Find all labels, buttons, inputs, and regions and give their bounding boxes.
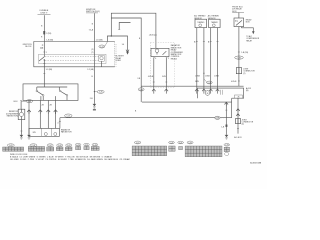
fusible link label	[38, 10, 51, 14]
dashed enclosure radiator fan relay	[150, 43, 174, 88]
connector C-12 table	[91, 143, 99, 150]
svg-text:AC305817AB: AC305817AB	[250, 161, 262, 164]
resistor ground wire	[20, 120, 22, 135]
svg-text:1-S (6B): 1-S (6B)	[46, 39, 53, 41]
wire label 1-B(1B)	[238, 52, 248, 54]
relay pin 1	[165, 57, 167, 58]
ground symbol	[93, 104, 97, 111]
wire JB relay to JB bottom	[101, 61, 103, 67]
svg-text:C-24: C-24	[170, 142, 174, 144]
svg-text:4: 4	[155, 58, 156, 60]
wire relay pin4 down	[153, 58, 155, 89]
wire relay pin1 down	[165, 58, 167, 89]
svg-text:(B+): (B+)	[235, 20, 239, 22]
svg-text:FAN MOTOR): FAN MOTOR)	[7, 115, 19, 118]
bracket marks	[221, 90, 223, 95]
ECU main wire down	[238, 27, 240, 87]
dashed links to JB relay	[45, 56, 99, 58]
radiator fan motor box	[29, 128, 59, 136]
svg-text:C-33: C-33	[225, 145, 229, 147]
sensor wire connector halfarrows	[195, 89, 199, 94]
front ECU label	[232, 6, 244, 12]
JB relay label	[116, 55, 125, 62]
connector C-06 table	[28, 144, 44, 151]
connector C-05 table	[3, 144, 24, 151]
relay pin 4	[153, 57, 155, 58]
svg-text:(1A): (1A)	[40, 47, 44, 50]
wire fusible link to junction block	[43, 15, 45, 41]
svg-text:1: 1	[46, 52, 47, 54]
wire exit 4	[54, 100, 58, 128]
wire color code legend	[10, 154, 130, 161]
svg-text:RELAY): RELAY)	[171, 57, 178, 60]
connector C-33 table	[224, 144, 230, 156]
tick	[43, 73, 45, 75]
wire inside JB	[43, 42, 45, 58]
pin 1 tick	[43, 51, 45, 53]
connector C-13 big table	[132, 141, 167, 156]
svg-text:1-S (6B): 1-S (6B)	[96, 40, 103, 42]
ECU ground wire below box	[236, 98, 240, 133]
tick	[237, 128, 239, 130]
svg-text:FAN MOTOR: FAN MOTOR	[61, 131, 72, 134]
svg-text:2 (1B): 2 (1B)	[46, 33, 51, 35]
connector ticks y41.5	[194, 41, 218, 44]
motor M2	[54, 133, 57, 136]
svg-text:C-09: C-09	[67, 145, 71, 147]
ground symbol	[225, 135, 229, 139]
svg-text:+B (3C): +B (3C)	[149, 35, 156, 37]
svg-text:THERMO: THERMO	[211, 22, 219, 24]
connector C-05 oval with leader	[21, 100, 32, 103]
node dot	[111, 35, 112, 36]
svg-text:C-05: C-05	[9, 145, 13, 147]
svg-text:C-10: C-10	[76, 145, 80, 147]
ground symbol	[27, 135, 31, 139]
wire exit 1 to ground	[27, 100, 31, 134]
connector C-09 table	[65, 144, 72, 151]
connector oval with leader	[203, 73, 212, 85]
connector halfarrow	[165, 89, 169, 94]
svg-text:A/C-ECU: A/C-ECU	[234, 136, 242, 139]
svg-text:B-W: B-W	[195, 81, 199, 83]
svg-text:GR: GRAY R: RED P: PINK: GR: GRAY R: RED P: PINK V: VIOLET PU: PU…	[10, 158, 130, 161]
relay label	[171, 44, 184, 60]
long bus y117.7	[60, 117, 232, 119]
connector oval on long vertical	[138, 88, 144, 92]
thermo switch 1	[36, 90, 44, 100]
svg-text:C-12: C-12	[93, 145, 97, 147]
svg-text:4: 4	[57, 122, 58, 124]
svg-text:BPL: BPL	[33, 132, 36, 134]
svg-text:1-B (1B): 1-B (1B)	[241, 52, 248, 54]
node dot + label	[231, 80, 239, 83]
connector C-08 table	[56, 144, 63, 151]
radiator fan relay	[151, 48, 169, 56]
svg-text:C-08: C-08	[58, 145, 62, 147]
JB relay coil	[99, 55, 104, 61]
motor box label	[61, 129, 72, 134]
svg-text:C-07: C-07	[48, 145, 52, 147]
switch blade in JB	[39, 57, 45, 61]
connector C-24 oval	[99, 42, 108, 49]
motor M1	[44, 133, 47, 136]
thermo sensor 2	[208, 15, 220, 28]
svg-text:THERMO: THERMO	[197, 22, 205, 24]
wire up and over to relay	[111, 13, 156, 48]
resistor label	[6, 111, 19, 117]
svg-text:C-34: C-34	[237, 58, 241, 60]
connector oval C-34	[235, 56, 244, 60]
wire inner loop to long vertical	[111, 18, 141, 102]
wire into switch box	[43, 84, 45, 87]
connector oval on bus right	[215, 116, 224, 119]
page arrow	[111, 36, 129, 55]
bus riser right	[231, 102, 233, 118]
ignition wire	[93, 13, 95, 67]
connector C-07 table	[47, 144, 54, 151]
pin 2 tick	[43, 63, 45, 65]
svg-text:B-18: B-18	[14, 101, 18, 103]
svg-text:C-33: C-33	[216, 118, 220, 120]
wire exit 2	[39, 100, 45, 128]
ECU box side label	[246, 18, 253, 23]
condenser fan motor M	[205, 91, 210, 96]
connector C-25 table	[178, 141, 184, 149]
ground symbol	[20, 135, 24, 139]
svg-text:(4): (4)	[242, 124, 245, 126]
thermo switch box	[23, 84, 78, 101]
svg-text:C-24: C-24	[100, 46, 104, 48]
bus wire y86.2	[141, 85, 243, 87]
wire JB bottom left down	[43, 67, 45, 84]
resistor (condenser fan motor)	[18, 109, 25, 119]
svg-text:0.85-B: 0.85-B	[231, 81, 237, 83]
svg-text:C-25: C-25	[179, 142, 183, 144]
svg-text:1-4: 1-4	[122, 44, 125, 46]
sensor wires	[196, 28, 198, 89]
svg-text:C-26: C-26	[99, 92, 103, 94]
JB inner box	[39, 54, 107, 63]
joint connector (4)	[235, 119, 253, 126]
svg-text:C-13: C-13	[67, 116, 71, 118]
connector C-10 table	[75, 143, 81, 149]
svg-text:(B): (B)	[246, 90, 249, 92]
bus riser left	[59, 118, 61, 129]
front ECU box	[234, 18, 244, 27]
svg-text:BLOCK: BLOCK	[25, 46, 32, 48]
junction block	[22, 42, 116, 67]
svg-text:C-13: C-13	[136, 142, 140, 144]
connector C-35 big table	[185, 141, 222, 157]
wire JB bottom mid down	[93, 67, 95, 104]
pin ticks y82	[153, 81, 155, 83]
svg-text:C-11: C-11	[85, 145, 88, 147]
svg-text:C-35: C-35	[188, 142, 192, 144]
svg-text:RELAY: RELAY	[246, 39, 253, 42]
branch arrow to A/C compressor	[242, 27, 260, 43]
thermo switch 2	[56, 90, 68, 100]
connector tick	[118, 29, 120, 31]
joint connector (2)	[236, 68, 255, 75]
wire label +B(3C)	[149, 35, 157, 37]
svg-text:C-05: C-05	[28, 101, 32, 103]
connector halfarrow	[152, 89, 156, 94]
svg-text:1-2 (6B): 1-2 (6B)	[46, 69, 53, 71]
resistor wire	[14, 101, 22, 110]
connector C-24 table	[169, 141, 175, 151]
inner box 76	[235, 95, 243, 99]
fuse F1	[43, 31, 51, 35]
svg-text:S.REF: S.REF	[116, 60, 122, 62]
svg-text:LINK ①: LINK ①	[40, 12, 47, 15]
wire ECU label to box	[238, 13, 240, 18]
svg-text:C-25: C-25	[208, 82, 212, 84]
wire exit 3	[47, 100, 53, 128]
wire below switch to JB bottom	[43, 60, 45, 67]
tick on ground wire	[225, 109, 227, 111]
oval on bus	[65, 114, 72, 118]
condenser fan motor assembly box	[142, 87, 252, 102]
connector oval with leader	[94, 90, 104, 93]
ground wire from box (left)	[221, 102, 228, 135]
svg-text:1: 1	[168, 58, 169, 60]
svg-text:B-W: B-W	[162, 76, 166, 78]
connector C-11 table	[84, 143, 90, 149]
thermo sensor 1	[194, 15, 206, 28]
svg-text:C-23: C-23	[139, 89, 143, 91]
svg-text:0.85-B: 0.85-B	[148, 76, 154, 78]
svg-text:2-2 (6B): 2-2 (6B)	[87, 69, 94, 71]
ignition switch label	[86, 9, 100, 13]
wire branch up from JB	[107, 36, 111, 42]
